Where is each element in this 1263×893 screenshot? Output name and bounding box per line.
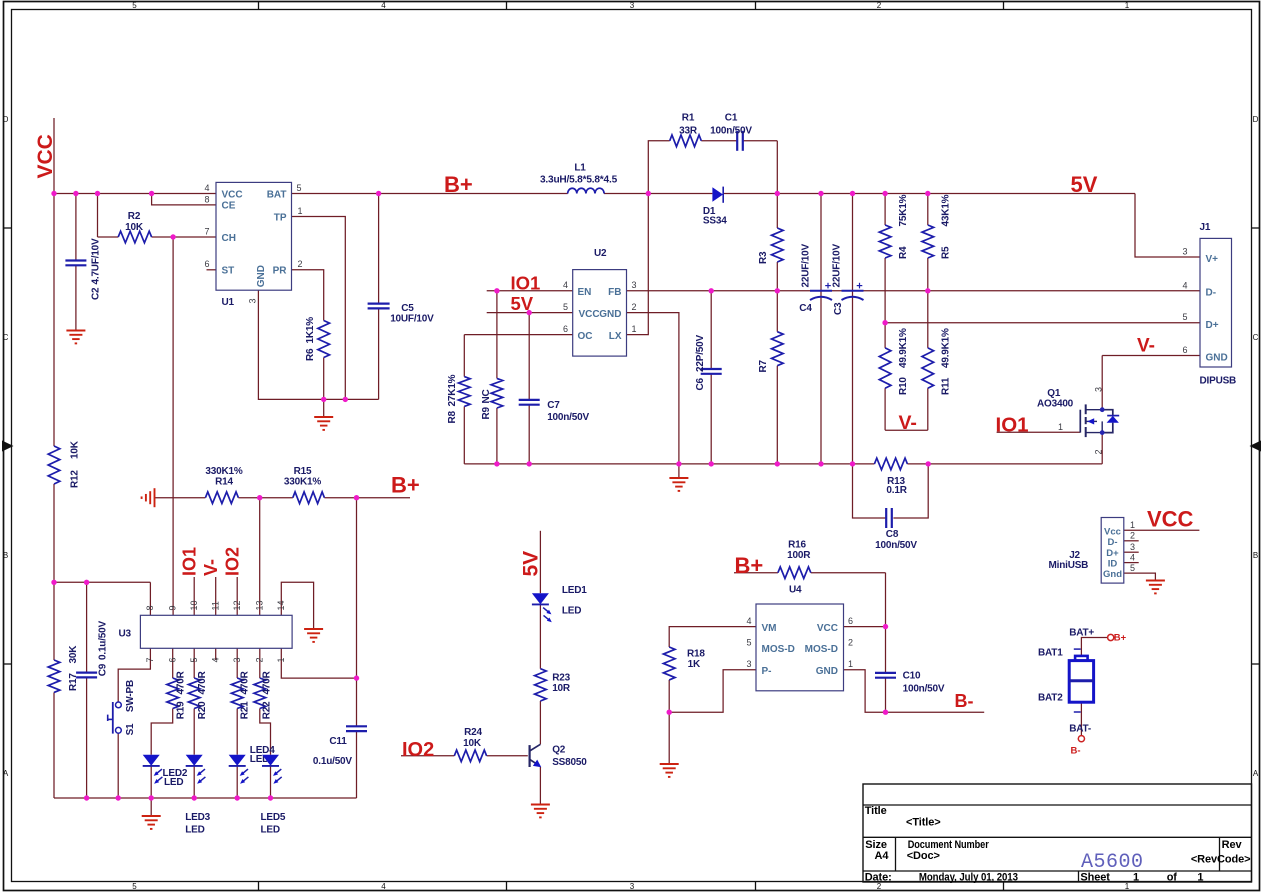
svg-text:470R: 470R bbox=[240, 670, 251, 694]
resistor R20 470R bbox=[188, 670, 208, 719]
wire U3 pin11 V- bbox=[215, 577, 217, 615]
svg-text:NC: NC bbox=[481, 389, 492, 403]
svg-text:LED: LED bbox=[164, 777, 183, 788]
svg-text:R7: R7 bbox=[758, 359, 769, 372]
svg-text:BAT: BAT bbox=[267, 189, 287, 200]
svg-text:3: 3 bbox=[630, 1, 635, 10]
svg-text:R12: R12 bbox=[70, 470, 81, 488]
svg-text:100n/50V: 100n/50V bbox=[710, 125, 752, 136]
svg-text:V-: V- bbox=[899, 412, 917, 434]
svg-text:R15: R15 bbox=[294, 466, 312, 477]
svg-text:IO1: IO1 bbox=[996, 414, 1029, 437]
svg-text:49.9K1%: 49.9K1% bbox=[898, 328, 909, 368]
svg-text:R3: R3 bbox=[758, 251, 769, 264]
svg-text:<Title>: <Title> bbox=[906, 817, 941, 829]
svg-text:MOS-D: MOS-D bbox=[762, 644, 795, 655]
svg-text:R19: R19 bbox=[175, 701, 186, 719]
svg-text:VCC: VCC bbox=[34, 134, 57, 178]
svg-text:C7: C7 bbox=[547, 400, 560, 411]
svg-text:IO1: IO1 bbox=[511, 273, 541, 294]
title block bbox=[863, 784, 1252, 884]
svg-text:C11: C11 bbox=[329, 736, 347, 747]
svg-text:V-: V- bbox=[201, 559, 221, 576]
svg-text:R1: R1 bbox=[682, 113, 695, 124]
svg-text:V+: V+ bbox=[1206, 254, 1219, 265]
wire B+ to C11 column bbox=[356, 498, 358, 798]
svg-text:B+: B+ bbox=[735, 553, 764, 578]
net label B- bbox=[955, 691, 974, 711]
svg-text:GND: GND bbox=[1206, 352, 1228, 363]
svg-text:5: 5 bbox=[297, 183, 302, 193]
svg-text:10: 10 bbox=[189, 600, 199, 610]
terminal B+ circle bbox=[1108, 633, 1127, 644]
svg-text:470R: 470R bbox=[175, 670, 186, 694]
connector J1 box bbox=[1200, 222, 1237, 387]
wire U1 TP net bbox=[292, 217, 346, 400]
terminal B- circle bbox=[1071, 736, 1085, 757]
svg-text:D-: D- bbox=[1206, 288, 1217, 299]
wire 5V to J1 V+ bbox=[1135, 194, 1200, 258]
svg-text:Gnd: Gnd bbox=[1103, 569, 1122, 580]
svg-text:R22: R22 bbox=[262, 701, 273, 719]
ground bottom-left bbox=[142, 816, 161, 829]
ground below C2 bbox=[66, 331, 85, 344]
svg-text:49.9K1%: 49.9K1% bbox=[941, 328, 952, 368]
U1 pin numbers bbox=[204, 183, 302, 304]
svg-text:R23: R23 bbox=[552, 673, 570, 684]
svg-text:MiniUSB: MiniUSB bbox=[1049, 560, 1089, 571]
svg-text:10K: 10K bbox=[463, 738, 482, 749]
battery BAT1 BAT2 bbox=[1038, 628, 1094, 735]
wire battery bottom bbox=[1080, 702, 1082, 735]
svg-text:SS8050: SS8050 bbox=[552, 757, 587, 768]
J2 pin numbers bbox=[1130, 520, 1135, 573]
svg-text:C6: C6 bbox=[695, 377, 706, 390]
svg-text:1: 1 bbox=[1125, 1, 1130, 10]
wire ground bus y=463.9 bbox=[464, 464, 1102, 478]
LED5 bbox=[261, 755, 286, 836]
svg-text:1K: 1K bbox=[688, 659, 701, 670]
wire R8 column bbox=[463, 335, 465, 464]
wire U3 pin3 R21 LED4 bbox=[236, 648, 238, 798]
svg-text:Q2: Q2 bbox=[552, 745, 566, 756]
wire C2 leads bbox=[75, 194, 77, 331]
resistor R24 10K bbox=[454, 727, 486, 762]
capacitor C6 22P/50V bbox=[695, 335, 722, 391]
resistor R5 43K1% bbox=[922, 194, 952, 259]
ground below U1 bbox=[314, 417, 333, 430]
svg-text:1: 1 bbox=[1125, 882, 1130, 891]
wire U1 PR to R6 bbox=[292, 270, 324, 400]
svg-text:IO2: IO2 bbox=[402, 739, 434, 761]
wire C3 column bbox=[852, 194, 854, 464]
svg-text:C5: C5 bbox=[401, 303, 414, 314]
net label IO2 at U3 bbox=[223, 547, 243, 576]
wire U2 GND pin to bus bbox=[627, 313, 679, 464]
svg-text:6: 6 bbox=[848, 616, 853, 626]
J1 pin names bbox=[1206, 254, 1228, 364]
svg-text:R5: R5 bbox=[941, 246, 952, 259]
svg-text:Date:: Date: bbox=[865, 872, 892, 884]
wire U4 VM to R18 bbox=[669, 627, 756, 764]
switch S1 SW-PB bbox=[108, 680, 137, 735]
svg-text:BAT-: BAT- bbox=[1069, 724, 1091, 735]
wire C4 column bbox=[820, 194, 822, 464]
svg-text:LED1: LED1 bbox=[562, 585, 587, 596]
IC U1 box bbox=[216, 182, 292, 308]
svg-text:PR: PR bbox=[273, 266, 288, 277]
LED3 bbox=[185, 755, 210, 836]
svg-text:7: 7 bbox=[145, 657, 155, 662]
svg-text:B+: B+ bbox=[391, 473, 420, 498]
net label IO1 at Q1 bbox=[996, 414, 1029, 437]
transistor Q1 AO3400 bbox=[1037, 388, 1119, 437]
resistor R16 100R bbox=[778, 540, 811, 579]
capacitor C1 100n/50V bbox=[710, 113, 752, 151]
resistor R18 1K bbox=[663, 647, 705, 680]
svg-text:U3: U3 bbox=[119, 629, 132, 640]
svg-text:ID: ID bbox=[1108, 558, 1118, 569]
svg-text:10K: 10K bbox=[125, 222, 144, 233]
svg-text:3: 3 bbox=[1094, 387, 1104, 392]
wire B+ R16 row bbox=[734, 572, 886, 574]
svg-text:A: A bbox=[3, 769, 9, 778]
capacitor C2 4.7UF/10V bbox=[65, 238, 101, 300]
J1 pin numbers bbox=[1182, 247, 1187, 355]
svg-text:MOS-D: MOS-D bbox=[805, 644, 838, 655]
svg-text:LED: LED bbox=[562, 606, 581, 617]
svg-text:EN: EN bbox=[578, 287, 592, 298]
svg-text:5V: 5V bbox=[520, 551, 543, 577]
svg-text:0.1R: 0.1R bbox=[886, 485, 907, 496]
svg-text:J1: J1 bbox=[1200, 222, 1211, 233]
svg-text:B+: B+ bbox=[1114, 633, 1127, 644]
svg-text:4: 4 bbox=[381, 1, 386, 10]
svg-text:4: 4 bbox=[204, 183, 209, 193]
svg-text:4: 4 bbox=[1182, 280, 1187, 290]
wire VCC left vertical rail x=54 bbox=[53, 118, 55, 798]
svg-text:IO2: IO2 bbox=[223, 547, 243, 576]
resistor R21 470R bbox=[231, 670, 250, 719]
svg-text:13: 13 bbox=[254, 600, 264, 610]
svg-text:L1: L1 bbox=[574, 162, 586, 173]
resistor R10 49.9K1% bbox=[879, 328, 909, 395]
resistor R12 10K bbox=[48, 440, 80, 488]
wire battery top bbox=[1081, 638, 1107, 656]
resistor R11 49.9K1% bbox=[922, 328, 952, 395]
wire C9 column bbox=[86, 582, 88, 798]
svg-text:SW-PB: SW-PB bbox=[125, 680, 136, 712]
svg-text:2: 2 bbox=[254, 657, 264, 662]
svg-text:LED: LED bbox=[185, 825, 204, 836]
svg-text:R20: R20 bbox=[197, 701, 208, 719]
resistor R14 330K1% bbox=[205, 466, 242, 504]
svg-text:100n/50V: 100n/50V bbox=[547, 412, 589, 423]
svg-text:22UF/10V: 22UF/10V bbox=[832, 244, 843, 288]
svg-text:1K1%: 1K1% bbox=[305, 317, 316, 344]
wire R9 column bbox=[496, 291, 498, 464]
wire U3 pin7 to S1 bbox=[118, 648, 150, 798]
svg-text:R6: R6 bbox=[305, 348, 316, 361]
ground at J2 bbox=[1146, 581, 1165, 594]
wire U4 GND to B- bbox=[844, 670, 985, 712]
svg-text:1: 1 bbox=[848, 659, 853, 669]
svg-text:D-: D- bbox=[1107, 537, 1117, 548]
svg-text:5V: 5V bbox=[511, 293, 534, 314]
svg-text:3: 3 bbox=[248, 298, 258, 303]
svg-text:3: 3 bbox=[1130, 542, 1135, 552]
wire OC row bbox=[464, 334, 572, 336]
svg-text:VCC: VCC bbox=[579, 309, 600, 320]
svg-text:<RevCode>: <RevCode> bbox=[1191, 853, 1251, 865]
svg-text:of: of bbox=[1167, 872, 1178, 884]
wire J2 pin1 VCC bbox=[1124, 529, 1200, 531]
svg-text:7: 7 bbox=[204, 226, 209, 236]
svg-text:C9: C9 bbox=[98, 663, 109, 676]
svg-text:Monday, July 01, 2013: Monday, July 01, 2013 bbox=[919, 872, 1018, 884]
svg-text:0.1u/50V: 0.1u/50V bbox=[98, 620, 109, 660]
wire Q1 source to bus bbox=[1101, 433, 1103, 464]
Q1 pin numbers bbox=[1058, 387, 1104, 455]
ground mid bus bbox=[669, 478, 688, 491]
svg-text:R11: R11 bbox=[941, 377, 952, 395]
capacitor C5 10UF/10V bbox=[368, 303, 435, 325]
svg-text:CH: CH bbox=[222, 233, 236, 244]
wire 5V LED1 R23 Q2 column bbox=[539, 531, 541, 804]
resistor R19 470R bbox=[167, 670, 187, 719]
resistor R3 bbox=[758, 228, 783, 264]
net label IO2 at R24 bbox=[402, 739, 434, 761]
net label IO1 at U3 bbox=[180, 547, 200, 576]
svg-text:4: 4 bbox=[381, 882, 386, 891]
svg-text:470R: 470R bbox=[262, 670, 273, 694]
wire LX net bbox=[627, 194, 649, 335]
IC U2 box bbox=[573, 248, 627, 356]
J2 pin names bbox=[1103, 526, 1122, 580]
svg-text:3: 3 bbox=[630, 882, 635, 891]
resistor R23 10R bbox=[535, 669, 571, 701]
connector J2 box bbox=[1049, 518, 1124, 584]
svg-text:75K1%: 75K1% bbox=[898, 194, 909, 226]
svg-text:0.1u/50V: 0.1u/50V bbox=[313, 756, 353, 767]
svg-text:330K1%: 330K1% bbox=[205, 466, 242, 477]
svg-text:SS34: SS34 bbox=[703, 215, 727, 226]
svg-text:VM: VM bbox=[762, 623, 777, 634]
svg-text:B+: B+ bbox=[444, 172, 473, 197]
svg-text:10R: 10R bbox=[552, 683, 571, 694]
svg-text:A4: A4 bbox=[875, 850, 890, 862]
svg-text:A5600: A5600 bbox=[1081, 851, 1144, 874]
svg-text:6: 6 bbox=[1182, 345, 1187, 355]
svg-text:8: 8 bbox=[204, 194, 209, 204]
svg-text:5: 5 bbox=[746, 637, 751, 647]
svg-text:D+: D+ bbox=[1206, 320, 1219, 331]
resistor R9 NC bbox=[481, 378, 503, 419]
wire R1 C1 branch bbox=[648, 141, 777, 194]
svg-text:GND: GND bbox=[256, 265, 267, 287]
svg-text:5: 5 bbox=[189, 657, 199, 662]
svg-text:U1: U1 bbox=[222, 297, 235, 308]
svg-text:470R: 470R bbox=[197, 670, 208, 694]
resistor R6 1K1% bbox=[305, 317, 330, 361]
svg-text:3: 3 bbox=[632, 280, 637, 290]
resistor R22 470R bbox=[254, 670, 273, 719]
svg-text:B-: B- bbox=[1071, 746, 1081, 757]
svg-text:AO3400: AO3400 bbox=[1037, 399, 1074, 410]
svg-text:5: 5 bbox=[1182, 312, 1187, 322]
wire R2 to CH and down to U3 pin9 bbox=[98, 194, 217, 616]
resistor R4 75K1% bbox=[879, 194, 909, 259]
svg-text:R4: R4 bbox=[898, 246, 909, 259]
svg-text:4: 4 bbox=[210, 657, 220, 662]
svg-text:2: 2 bbox=[298, 259, 303, 269]
transistor Q2 SS8050 bbox=[530, 744, 588, 768]
svg-text:R24: R24 bbox=[464, 727, 482, 738]
resistor R2 10K bbox=[118, 211, 151, 243]
svg-text:330K1%: 330K1% bbox=[284, 477, 321, 488]
svg-text:ST: ST bbox=[222, 266, 235, 277]
wire U3 pin10 IO1 bbox=[193, 577, 195, 615]
IC U3 box bbox=[119, 615, 293, 648]
svg-text:R14: R14 bbox=[215, 477, 233, 488]
wire main B+ bus y=193.5 bbox=[54, 193, 1135, 195]
U4 pin names bbox=[762, 623, 839, 677]
LED2 bbox=[143, 755, 188, 788]
capacitor C7 100n/50V bbox=[519, 400, 590, 423]
svg-text:B: B bbox=[1253, 551, 1258, 560]
wire U3 pin6 R19 LED2 bbox=[151, 648, 173, 798]
capacitor C3 22UF/10V bbox=[832, 244, 864, 315]
resistor R15 330K1% bbox=[284, 466, 324, 504]
LED1 bbox=[532, 585, 587, 622]
svg-text:FB: FB bbox=[608, 287, 621, 298]
U3 top pin numbers bbox=[145, 600, 286, 610]
wire J2 pin5 gnd bbox=[1124, 573, 1156, 580]
wire C8 branch bbox=[853, 464, 929, 518]
resistor R17 30K bbox=[48, 645, 79, 693]
svg-text:C4: C4 bbox=[799, 303, 812, 314]
svg-text:100R: 100R bbox=[787, 550, 811, 561]
svg-text:C: C bbox=[1253, 333, 1259, 342]
svg-text:3.3uH/5.8*5.8*4.5: 3.3uH/5.8*5.8*4.5 bbox=[540, 175, 618, 186]
capacitor C4 22UF/10V bbox=[799, 244, 832, 314]
wire U1 CE jog bbox=[152, 194, 216, 205]
net label 5V at LED1 bbox=[520, 551, 543, 577]
net label V- divider bbox=[899, 412, 917, 434]
svg-text:2: 2 bbox=[632, 302, 637, 312]
svg-text:6: 6 bbox=[204, 259, 209, 269]
svg-text:GND: GND bbox=[816, 666, 838, 677]
capacitor C10 100n/50V bbox=[875, 671, 945, 695]
svg-text:D: D bbox=[1253, 115, 1259, 124]
svg-text:27K1%: 27K1% bbox=[447, 374, 458, 406]
ground right of U3 bbox=[304, 629, 323, 642]
wire R14 R15 row bbox=[155, 497, 411, 499]
wire EN row bbox=[487, 290, 573, 292]
svg-text:43K1%: 43K1% bbox=[941, 194, 952, 226]
U2 pin names bbox=[578, 287, 622, 342]
wire U3 pin1 jog bbox=[281, 648, 356, 678]
svg-text:C2: C2 bbox=[91, 287, 102, 300]
svg-text:IO1: IO1 bbox=[180, 547, 200, 576]
wire R3 R7 column bbox=[776, 194, 778, 464]
wire R4 R10 column bbox=[884, 194, 886, 431]
svg-text:2: 2 bbox=[1094, 449, 1104, 454]
diode D1 SS34 bbox=[703, 187, 727, 227]
wire U3 pin4 stub bbox=[215, 648, 217, 660]
svg-text:1: 1 bbox=[1197, 872, 1203, 884]
svg-text:10UF/10V: 10UF/10V bbox=[390, 314, 434, 325]
net label VCC at J2 bbox=[1147, 507, 1194, 532]
svg-text:R18: R18 bbox=[687, 648, 705, 659]
wire U1 GND net bbox=[258, 290, 378, 416]
svg-text:22P/50V: 22P/50V bbox=[695, 335, 706, 372]
svg-text:Vcc: Vcc bbox=[1104, 526, 1121, 537]
svg-text:4: 4 bbox=[1130, 552, 1135, 562]
svg-text:C: C bbox=[3, 333, 9, 342]
svg-text:100n/50V: 100n/50V bbox=[875, 540, 917, 551]
svg-text:100n/50V: 100n/50V bbox=[903, 684, 945, 695]
wire C5 leads bbox=[378, 194, 380, 400]
wire U3 pin5 R20 LED3 bbox=[193, 648, 195, 798]
svg-text:33R: 33R bbox=[679, 125, 698, 136]
wire bottom-left ground bus y=798 bbox=[54, 798, 357, 816]
svg-text:R9: R9 bbox=[481, 406, 492, 419]
net label 5V top bbox=[1071, 172, 1098, 197]
svg-text:2: 2 bbox=[877, 1, 882, 10]
IC U4 box bbox=[756, 585, 844, 691]
svg-text:30K: 30K bbox=[68, 645, 79, 664]
wire U3 pin8 net bbox=[54, 582, 150, 615]
net label VCC left bbox=[34, 134, 57, 178]
svg-text:1: 1 bbox=[632, 324, 637, 334]
U3 bottom pin numbers bbox=[145, 657, 286, 662]
svg-text:D: D bbox=[3, 115, 9, 124]
wire U3 pin12 IO2 bbox=[236, 577, 238, 615]
svg-text:VCC: VCC bbox=[1147, 507, 1194, 532]
svg-text:OC: OC bbox=[578, 331, 593, 342]
wire V- pocket bbox=[885, 429, 928, 431]
capacitor C8 100n/50V bbox=[875, 508, 917, 551]
svg-text:14: 14 bbox=[276, 600, 286, 610]
svg-text:VCC: VCC bbox=[817, 623, 838, 634]
svg-text:5: 5 bbox=[1130, 563, 1135, 573]
net label 5V at U2 bbox=[511, 293, 534, 314]
U2 pin numbers bbox=[563, 280, 637, 334]
svg-text:3: 3 bbox=[232, 657, 242, 662]
svg-text:4: 4 bbox=[563, 280, 568, 290]
wire J2 stubs bbox=[1124, 541, 1139, 563]
wire D+ row bbox=[885, 322, 1200, 324]
svg-text:R10: R10 bbox=[898, 377, 909, 395]
svg-text:6: 6 bbox=[167, 657, 177, 662]
svg-text:J2: J2 bbox=[1069, 550, 1080, 561]
svg-text:B-: B- bbox=[955, 691, 974, 711]
svg-text:<Doc>: <Doc> bbox=[907, 850, 940, 862]
ground below R18 bbox=[660, 764, 679, 777]
svg-text:Rev: Rev bbox=[1222, 839, 1243, 851]
svg-text:12: 12 bbox=[232, 600, 242, 610]
svg-text:BAT1: BAT1 bbox=[1038, 648, 1063, 659]
wire C7 column bbox=[528, 313, 530, 464]
svg-text:P-: P- bbox=[762, 666, 772, 677]
svg-text:CE: CE bbox=[222, 201, 236, 212]
wire IO2 to R24 to Q2 base bbox=[401, 755, 528, 757]
svg-text:2: 2 bbox=[1130, 531, 1135, 541]
svg-text:A: A bbox=[1253, 769, 1259, 778]
ground sideways at R14 bbox=[142, 488, 155, 507]
svg-text:TP: TP bbox=[274, 212, 287, 223]
